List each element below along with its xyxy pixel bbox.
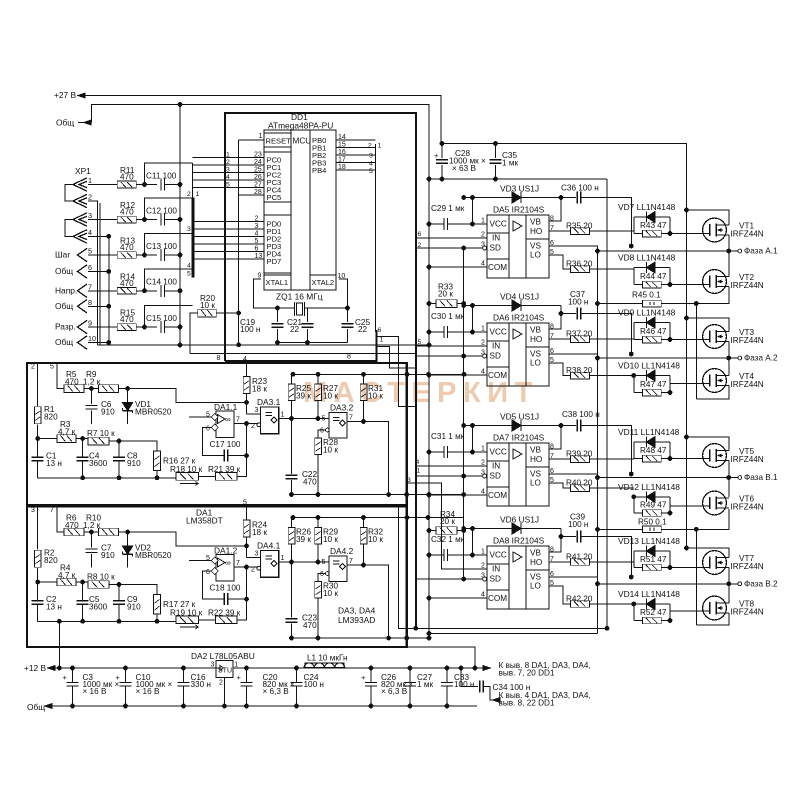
svg-text:COM: COM	[488, 263, 507, 272]
svg-text:1: 1	[481, 218, 485, 225]
wire comparator2 in DA3.2	[318, 430, 326, 438]
svg-text:3: 3	[255, 551, 259, 558]
wire net3 to DA8 IN	[407, 483, 487, 569]
svg-text:VB: VB	[530, 549, 541, 558]
port DD1 PC0-PC5	[264, 152, 291, 202]
svg-text:820: 820	[44, 412, 58, 421]
svg-text:4: 4	[481, 592, 485, 599]
resistor R28 10k	[315, 438, 322, 455]
svg-text:DA2 L78L05ABU: DA2 L78L05ABU	[191, 651, 255, 661]
svg-text:4: 4	[255, 230, 259, 237]
pin XP1.3	[73, 213, 87, 226]
wire channel bottom net	[292, 494, 464, 496]
svg-text:VD13 LL1N4148: VD13 LL1N4148	[618, 536, 680, 546]
svg-text:DA3.2: DA3.2	[330, 403, 354, 413]
svg-text:IRFZ44N: IRFZ44N	[731, 455, 764, 464]
transistor VT5 IRFZ44N	[703, 444, 727, 468]
svg-text:IN: IN	[492, 565, 500, 574]
svg-text:100 н: 100 н	[568, 298, 588, 307]
svg-text:5: 5	[50, 364, 54, 371]
svg-text:3: 3	[31, 507, 35, 514]
transistor VT6 IRFZ44N	[703, 491, 727, 515]
svg-text:910: 910	[101, 407, 115, 416]
wire VT6 source	[696, 509, 729, 529]
wire VD2 to comparator	[128, 532, 247, 546]
capacitor C6 910	[90, 389, 92, 404]
wire VT7 drain	[687, 548, 729, 558]
resistor R1 820	[37, 363, 39, 406]
svg-text:14: 14	[338, 134, 346, 141]
svg-text:DA1.2: DA1.2	[214, 545, 238, 555]
capacitor C8 910	[118, 441, 120, 458]
svg-text:VD12 LL1N4148: VD12 LL1N4148	[618, 482, 680, 492]
svg-text:VS: VS	[530, 242, 541, 251]
wire net loop row 3	[145, 233, 193, 255]
transistor VT7 IRFZ44N	[703, 551, 727, 575]
svg-text:7: 7	[50, 507, 54, 514]
svg-text:5: 5	[322, 559, 326, 566]
svg-text:1: 1	[88, 176, 92, 185]
resistor R27 10k	[315, 384, 322, 401]
svg-text:Фаза В.1: Фаза В.1	[744, 473, 778, 482]
svg-text:1: 1	[380, 337, 384, 344]
svg-text:20 к: 20 к	[440, 517, 455, 526]
wire crystal ground	[278, 342, 348, 344]
svg-text:IRFZ44N: IRFZ44N	[731, 281, 764, 290]
svg-text:10: 10	[88, 334, 96, 343]
svg-text:+: +	[434, 151, 439, 160]
svg-text:XP1: XP1	[75, 166, 91, 176]
wire comparator out DA3.1	[279, 418, 329, 420]
svg-text:C36 100 н: C36 100 н	[561, 184, 599, 193]
svg-text:2: 2	[255, 215, 259, 222]
svg-text:10 к: 10 к	[323, 445, 338, 454]
capacitor C24 100n	[296, 668, 298, 682]
pin XP1.10	[78, 336, 88, 349]
svg-text:VD4 US1J: VD4 US1J	[500, 292, 539, 302]
svg-text:MBR0520: MBR0520	[135, 407, 172, 416]
wire box corner to rail	[407, 647, 475, 668]
svg-text:24: 24	[254, 159, 262, 166]
pin XP1.8	[78, 300, 88, 313]
diode VD2 MBR0520	[127, 532, 129, 546]
svg-text:LO: LO	[530, 251, 541, 260]
svg-text:VD9 LL1N4148: VD9 LL1N4148	[618, 308, 676, 318]
wire channel bottom net	[292, 637, 430, 639]
node phase A.2	[598, 357, 738, 359]
svg-text:COM: COM	[488, 594, 507, 603]
pin XP1.2	[73, 194, 87, 207]
svg-text:DA1.1: DA1.1	[214, 402, 238, 412]
wire XP1 row R13	[88, 254, 118, 256]
svg-text:5: 5	[187, 271, 191, 278]
resistor R25 39k	[288, 384, 295, 401]
svg-text:R47 47: R47 47	[640, 380, 667, 389]
svg-text:L1 10 мкГн: L1 10 мкГн	[307, 654, 347, 663]
wire IN DA7	[416, 465, 487, 467]
wire SD DA5	[483, 246, 487, 250]
svg-text:+: +	[116, 673, 121, 682]
wire net loop row 2	[145, 198, 193, 220]
svg-text:Фаза А.2: Фаза А.2	[744, 354, 778, 363]
resistor R16 27k	[154, 451, 161, 471]
svg-text:× 6,3 В: × 6,3 В	[381, 687, 408, 696]
svg-text:SD: SD	[490, 472, 501, 481]
wire opamp out DA1.1	[234, 423, 258, 425]
svg-text:VCC: VCC	[490, 328, 507, 337]
svg-text:1: 1	[481, 549, 485, 556]
svg-text:VD10 LL1N4148: VD10 LL1N4148	[618, 361, 680, 371]
svg-text:R43 47: R43 47	[640, 221, 667, 230]
svg-text:1: 1	[259, 133, 263, 140]
bus +27 right continues	[686, 210, 688, 548]
svg-text:Общ: Общ	[55, 337, 73, 347]
svg-text:1 мк: 1 мк	[417, 680, 433, 689]
svg-text:R40 20: R40 20	[566, 479, 593, 488]
svg-text:4: 4	[416, 459, 420, 466]
wire VB DA8	[549, 529, 561, 553]
svg-text:20 к: 20 к	[438, 290, 453, 299]
svg-text:C13 100: C13 100	[146, 242, 177, 251]
svg-text:IRFZ44N: IRFZ44N	[731, 608, 764, 617]
svg-text:C30 1 мк: C30 1 мк	[431, 312, 465, 321]
transistor VT2 IRFZ44N	[703, 270, 727, 294]
svg-text:R35 20: R35 20	[566, 222, 593, 231]
bracket XP1 pair 1-2	[65, 185, 73, 202]
svg-text:3: 3	[369, 153, 373, 160]
svg-text:MBR0520: MBR0520	[135, 551, 172, 560]
svg-text:5: 5	[226, 182, 230, 189]
wire VT2 source	[696, 287, 729, 304]
wire +27V rail	[78, 96, 687, 211]
wire VT2 drain	[728, 251, 730, 277]
svg-text:× 63 В: × 63 В	[452, 164, 476, 173]
svg-text:× 6,3 В: × 6,3 В	[263, 687, 290, 696]
svg-text:10 к: 10 к	[323, 535, 338, 544]
svg-text:6: 6	[88, 263, 92, 272]
outline analog channel box 2	[27, 507, 407, 648]
wire SD DA7	[483, 474, 487, 478]
pin XP1.6	[78, 265, 88, 278]
svg-text:1: 1	[234, 662, 238, 669]
svg-text:XTAL2: XTAL2	[312, 278, 335, 287]
wire comparator2 out DA3.2	[347, 422, 389, 495]
svg-text:6: 6	[378, 327, 382, 334]
pin XP1.1	[73, 178, 87, 191]
svg-text:13 н: 13 н	[46, 459, 62, 468]
svg-text:1: 1	[226, 152, 230, 159]
svg-text:10 к: 10 к	[200, 301, 215, 310]
transistor VT8 IRFZ44N	[703, 596, 727, 620]
svg-text:1: 1	[481, 446, 485, 453]
svg-text:3: 3	[88, 211, 92, 220]
wire VT5 drain	[687, 437, 729, 451]
wire XP1 row R14	[88, 290, 118, 292]
svg-text:C29 1 мк: C29 1 мк	[431, 204, 465, 213]
wire XP1 ground bus even pins	[108, 236, 110, 345]
bus x606.5 ground return	[606, 179, 608, 628]
wire IN DA6	[416, 345, 487, 347]
svg-text:C14 100: C14 100	[146, 278, 177, 287]
svg-text:1,2 к: 1,2 к	[83, 377, 101, 386]
wire net loop row 5	[145, 305, 193, 327]
wire opamp out DA1.2	[234, 566, 258, 568]
resistor R31 10k	[360, 384, 367, 401]
svg-text:R49 47: R49 47	[640, 501, 667, 510]
svg-text:DA3.1: DA3.1	[257, 397, 281, 407]
svg-text:R44 47: R44 47	[640, 272, 667, 281]
bus net bundle to DD1	[192, 163, 194, 198]
svg-text:LO: LO	[530, 359, 541, 368]
svg-text:15: 15	[338, 142, 346, 149]
wire XP1 row R12	[88, 219, 118, 221]
svg-text:4: 4	[369, 161, 373, 168]
wire gnd y353.5	[190, 353, 416, 355]
svg-text:3: 3	[255, 223, 259, 230]
svg-text:10 к: 10 к	[368, 535, 383, 544]
wire net loop row 1	[145, 163, 193, 185]
wire RESET net	[238, 140, 240, 345]
wire SD DA6	[483, 354, 487, 358]
svg-text:VB: VB	[530, 326, 541, 335]
svg-text:39 к: 39 к	[296, 391, 311, 400]
svg-text:2: 2	[251, 423, 255, 430]
svg-text:4: 4	[481, 261, 485, 268]
bus x597.5	[597, 251, 599, 634]
node phase B.2	[598, 583, 738, 585]
svg-text:18: 18	[338, 164, 346, 171]
svg-text:IRFZ44N: IRFZ44N	[731, 562, 764, 571]
capacitor bootstrap DA5	[561, 197, 576, 199]
svg-text:470: 470	[120, 243, 134, 252]
svg-text:LO: LO	[530, 479, 541, 488]
svg-text:R39 20: R39 20	[566, 450, 593, 459]
svg-text:5: 5	[255, 238, 259, 245]
wire VD1 to comparator	[128, 389, 247, 403]
svg-text:LM358DT: LM358DT	[186, 516, 223, 526]
svg-text:VCC: VCC	[490, 448, 507, 457]
svg-text:5: 5	[418, 339, 422, 346]
svg-text:8: 8	[88, 298, 92, 307]
wire VT5 source to phase B1	[728, 461, 730, 478]
svg-text:R7 10 к: R7 10 к	[87, 429, 115, 438]
svg-text:+12 В: +12 В	[24, 663, 47, 673]
capacitor C4 3600	[82, 439, 84, 458]
svg-text:3600: 3600	[89, 459, 108, 468]
wire ground bottom xp1	[97, 344, 429, 346]
svg-text:IN: IN	[492, 234, 500, 243]
svg-text:330 н: 330 н	[191, 680, 211, 689]
capacitor C33 100n	[446, 668, 448, 682]
svg-text:9: 9	[88, 319, 92, 328]
svg-text:C15 100: C15 100	[146, 314, 177, 323]
svg-text:470: 470	[120, 315, 134, 324]
resistor R26 39k	[288, 527, 295, 544]
wire COM DA5	[429, 266, 487, 268]
svg-text:5: 5	[322, 416, 326, 423]
wire C28 ground return	[429, 178, 607, 180]
wire VB DA7	[549, 426, 561, 450]
svg-text:× 16 В: × 16 В	[83, 687, 107, 696]
svg-text:R50 0.1: R50 0.1	[638, 517, 667, 526]
svg-text:100 н: 100 н	[454, 680, 474, 689]
svg-text:VD5 US1J: VD5 US1J	[500, 412, 539, 422]
svg-text:470: 470	[120, 173, 134, 182]
svg-text:25: 25	[254, 167, 262, 174]
svg-text:C17 100: C17 100	[210, 440, 241, 449]
svg-text:8: 8	[217, 355, 221, 362]
wire Obshch rail bottom	[52, 705, 477, 707]
svg-text:2: 2	[88, 193, 92, 202]
svg-text:COM: COM	[488, 371, 507, 380]
bus PB nets	[375, 144, 377, 332]
svg-text:5: 5	[88, 247, 92, 256]
wire XP1 pin4 to ground bus	[88, 235, 109, 237]
svg-text:2: 2	[481, 563, 485, 570]
wire VT6 drain	[728, 478, 730, 498]
svg-text:7: 7	[88, 282, 92, 291]
svg-text:28: 28	[254, 189, 262, 196]
svg-text:3: 3	[255, 407, 259, 414]
svg-text:VD6 US1J: VD6 US1J	[500, 515, 539, 525]
svg-text:4: 4	[226, 174, 230, 181]
svg-text:VS: VS	[530, 350, 541, 359]
svg-text:Общ: Общ	[27, 702, 45, 712]
svg-text:HO: HO	[530, 455, 542, 464]
wire VT1 drain	[687, 210, 729, 225]
svg-text:C18 100: C18 100	[210, 584, 241, 593]
wire XP1 row R15	[88, 326, 118, 328]
svg-text:1: 1	[417, 468, 421, 475]
svg-text:∞: ∞	[225, 559, 231, 568]
svg-text:22: 22	[290, 325, 300, 334]
svg-text:C38 100 н: C38 100 н	[562, 410, 600, 419]
svg-text:VS: VS	[530, 573, 541, 582]
wire net loop row 4	[145, 269, 193, 291]
svg-text:R51 47: R51 47	[640, 555, 667, 564]
wire VT7 source to phase B2	[728, 568, 730, 584]
svg-text:16: 16	[338, 149, 346, 156]
svg-text:4: 4	[187, 263, 191, 270]
svg-text:+: +	[63, 673, 68, 682]
capacitor C16 330n	[183, 668, 185, 682]
svg-text:HO: HO	[530, 227, 542, 236]
svg-text:RESET: RESET	[266, 137, 292, 146]
wire comparator2 in DA4.2	[318, 574, 326, 582]
wire channel ground row	[38, 477, 176, 479]
capacitor C26 820uF	[370, 668, 372, 682]
svg-text:R8 10 к: R8 10 к	[87, 573, 115, 582]
svg-text:LM393AD: LM393AD	[338, 615, 375, 625]
wire VS DA6	[549, 354, 598, 358]
svg-text:470: 470	[120, 208, 134, 217]
svg-text:+27 В: +27 В	[54, 90, 77, 100]
transistor VT3 IRFZ44N	[703, 325, 727, 349]
wire VT8 source	[696, 613, 729, 625]
outline MCU section box	[225, 112, 417, 114]
svg-text:VB: VB	[530, 218, 541, 227]
svg-text:LO: LO	[530, 582, 541, 591]
svg-text:Шаг: Шаг	[55, 250, 70, 260]
svg-text:R46 47: R46 47	[640, 327, 667, 336]
capacitor C7 910	[90, 532, 92, 547]
svg-text:3: 3	[211, 662, 215, 669]
wire VB DA6	[549, 306, 561, 330]
svg-text:4: 4	[243, 356, 247, 363]
svg-text:PD7: PD7	[267, 257, 282, 266]
svg-text:1: 1	[281, 412, 285, 419]
outline analog channel box 1	[27, 363, 407, 505]
svg-text:910: 910	[127, 602, 141, 611]
capacitor C23 470	[291, 562, 293, 618]
svg-text:4: 4	[88, 228, 92, 237]
svg-text:VB: VB	[530, 446, 541, 455]
svg-text:7: 7	[236, 417, 240, 424]
svg-text:18 к: 18 к	[252, 384, 267, 393]
capacitor C3 1000uF	[72, 668, 74, 682]
wire sense to VT8 source	[695, 529, 697, 625]
resistor R29 10k	[315, 527, 322, 544]
svg-text:VD11 LL1N4148: VD11 LL1N4148	[618, 427, 680, 437]
svg-text:Напр.: Напр.	[55, 285, 77, 295]
bus x429 ground	[428, 105, 430, 639]
svg-text:выв. 8, 22 DD1: выв. 8, 22 DD1	[499, 699, 555, 708]
svg-text:SD: SD	[490, 244, 501, 253]
capacitor C9 910	[118, 585, 120, 602]
wire comparator2 out DA4.2	[347, 565, 389, 638]
svg-text:6: 6	[206, 569, 210, 576]
svg-text:2: 2	[187, 191, 191, 198]
svg-text:VCC: VCC	[490, 551, 507, 560]
svg-text:6: 6	[320, 428, 324, 435]
wire Obshch rail top	[92, 105, 430, 180]
svg-text:Фаза В.2: Фаза В.2	[744, 580, 778, 589]
svg-text:4: 4	[481, 369, 485, 376]
wire VT3 drain	[687, 318, 729, 332]
svg-text:IN: IN	[492, 462, 500, 471]
svg-text:100 н: 100 н	[304, 680, 324, 689]
capacitor bootstrap DA7	[561, 425, 576, 427]
wire VT4 source	[696, 386, 729, 400]
wire +12V rail	[55, 667, 490, 669]
wire COM DA8	[429, 597, 487, 599]
resistor R30 10k	[315, 581, 322, 598]
svg-text:IRFZ44N: IRFZ44N	[731, 380, 764, 389]
wire bottom y628.3	[399, 505, 608, 628]
svg-text:39 к: 39 к	[296, 535, 311, 544]
wire lower comparator supply	[292, 517, 465, 519]
pin DD1 XTAL2	[310, 275, 336, 290]
svg-text:DA4.1: DA4.1	[257, 541, 281, 551]
svg-text:VD14 LL1N4148: VD14 LL1N4148	[618, 589, 680, 599]
svg-text:MCU: MCU	[293, 137, 312, 146]
wire VS DA7	[549, 474, 598, 478]
wire SD DA8	[483, 577, 487, 581]
svg-text:C32 1 мк: C32 1 мк	[431, 535, 465, 544]
svg-text:VD8 LL1N4148: VD8 LL1N4148	[618, 253, 676, 263]
svg-text:SD: SD	[490, 575, 501, 584]
svg-text:XTAL1: XTAL1	[266, 278, 289, 287]
svg-text:R36 20: R36 20	[566, 260, 593, 269]
capacitor C20 820uF	[246, 668, 248, 682]
wire VT1 source to phase A1	[728, 235, 730, 251]
svg-text:PC5: PC5	[267, 193, 282, 202]
wire COM DA7	[429, 494, 487, 496]
svg-text:2: 2	[481, 340, 485, 347]
svg-text:DA6 IR2104S: DA6 IR2104S	[493, 313, 545, 323]
svg-text:+: +	[361, 673, 366, 682]
svg-text:8: 8	[347, 354, 351, 361]
